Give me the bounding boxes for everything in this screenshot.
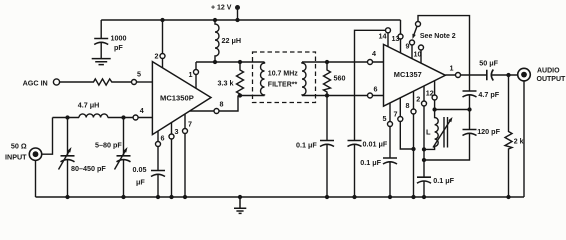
- pin 7 MC1357 branch: [398, 98, 414, 149]
- junction rail pin8: [411, 195, 415, 199]
- pin 8 MC1357 branch: [411, 91, 416, 197]
- junction rail pin7 MC1350P: [183, 195, 187, 199]
- capacitor 0.05uF: [151, 171, 165, 198]
- pin 5 MC1350P: [132, 80, 153, 85]
- svg-text:10.7 MHz: 10.7 MHz: [268, 71, 298, 78]
- junction 3.3k bottom: [238, 93, 242, 97]
- svg-text:4: 4: [140, 106, 144, 115]
- pin 14 MC1357: [386, 28, 391, 33]
- pin 4 MC1357: [368, 60, 373, 65]
- svg-text:10: 10: [414, 50, 422, 59]
- pin 4 MC1350P: [133, 115, 138, 120]
- junction rail 0.1uF 560: [325, 195, 329, 199]
- svg-text:22 μH: 22 μH: [222, 36, 242, 45]
- capacitor 0.1uF (560 branch): [320, 96, 334, 198]
- junction top rail / pin2: [160, 18, 164, 22]
- junction rail 5-80pF: [121, 195, 125, 199]
- svg-text:0.05: 0.05: [133, 165, 147, 174]
- svg-text:4.7 μH: 4.7 μH: [78, 101, 100, 110]
- capacitor 50uF: [487, 70, 518, 81]
- inductor filter input coil: [261, 62, 265, 96]
- svg-text:5–80 pF: 5–80 pF: [95, 141, 122, 150]
- svg-text:5: 5: [137, 70, 141, 79]
- svg-text:AGC IN: AGC IN: [23, 79, 48, 88]
- svg-text:8: 8: [220, 100, 224, 109]
- capacitor 5-80pF variable: [115, 118, 131, 198]
- resistor 2k: [505, 75, 512, 197]
- svg-text:7: 7: [394, 110, 398, 119]
- junction 22uH bottom: [213, 60, 217, 64]
- svg-text:2: 2: [155, 52, 159, 61]
- svg-text:6: 6: [161, 134, 165, 143]
- svg-text:1: 1: [450, 64, 454, 73]
- svg-text:OUTPUT: OUTPUT: [537, 76, 566, 83]
- svg-text:4: 4: [372, 49, 376, 58]
- svg-text:AUDIO: AUDIO: [537, 67, 560, 74]
- junction 120pF bottom / pin2 line: [422, 158, 426, 162]
- node See Note 2 terminal: [416, 16, 470, 75]
- wire input link: [53, 115, 153, 120]
- junction rail 0.01uF: [352, 195, 356, 199]
- junction rail pin6 MC1350P: [156, 195, 160, 199]
- svg-text:7: 7: [188, 120, 192, 129]
- svg-text:See Note 2: See Note 2: [420, 33, 456, 40]
- svg-text:+ 12 V: + 12 V: [211, 5, 232, 12]
- inductor L quadrature coil: [424, 110, 438, 150]
- junction rail 80-450pF: [65, 195, 69, 199]
- svg-text:8: 8: [406, 101, 410, 110]
- junction top rail / +12V: [235, 18, 239, 22]
- svg-text:0.1 μF: 0.1 μF: [360, 158, 381, 167]
- svg-text:L: L: [426, 128, 431, 137]
- pin 5 MC1357 branch: [388, 103, 393, 158]
- pin 7 MC1350P branch: [183, 114, 188, 197]
- pin 9 MC1357: [410, 40, 415, 59]
- wire see-note arrow to pin9: [412, 27, 417, 39]
- terminal AUDIO OUTPUT jack: [518, 68, 531, 81]
- ground (1000pF): [92, 59, 111, 65]
- inductor 22uH: [215, 20, 219, 62]
- wire +12V top rail: [101, 19, 400, 21]
- svg-text:14: 14: [379, 32, 387, 41]
- arrow quadrature tuning: [433, 117, 453, 148]
- terminal AGC IN: [53, 79, 59, 85]
- wire rail to pin13 MC1357: [398, 20, 403, 53]
- svg-text:1: 1: [189, 70, 193, 79]
- pin 3 MC1350P branch: [169, 123, 174, 198]
- pin 13 MC1357: [398, 34, 403, 39]
- pin 2 MC1357 branch: [422, 86, 427, 178]
- wire quad tank top: [435, 109, 470, 111]
- wire ground rail: [36, 196, 525, 198]
- label AUDIO OUTPUT: [537, 67, 566, 83]
- svg-text:9: 9: [406, 42, 410, 51]
- svg-text:13: 13: [392, 34, 400, 43]
- resistor 560: [324, 62, 331, 96]
- resistor AGC series: [60, 79, 132, 85]
- junction tank top right: [467, 107, 471, 111]
- capacitor 4.7pF: [463, 75, 477, 110]
- junction rail pin5: [388, 195, 392, 199]
- svg-text:μF: μF: [136, 178, 145, 187]
- svg-text:pF: pF: [114, 43, 123, 52]
- svg-text:6: 6: [374, 84, 378, 93]
- svg-text:MC1357: MC1357: [394, 70, 422, 79]
- pin 2 MC1350P: [160, 54, 165, 59]
- resistor 3.3k: [237, 62, 244, 96]
- inductor 4.7uH: [79, 114, 108, 118]
- svg-text:50 Ω: 50 Ω: [11, 142, 27, 151]
- svg-text:FILTER**: FILTER**: [268, 82, 298, 89]
- junction rail ground stub: [238, 195, 242, 199]
- terminal 50 ohm INPUT jack: [29, 148, 41, 160]
- junction 560 top: [325, 60, 329, 64]
- pin 8 MC1350P: [214, 109, 219, 114]
- filter 10.7MHz dashed box: [253, 52, 316, 103]
- junction output / 2k branch: [506, 73, 510, 77]
- wire input jack to rail: [35, 160, 37, 197]
- svg-text:12: 12: [426, 89, 434, 98]
- pin 12 MC1357: [432, 81, 437, 110]
- wire filter to pin4 MC1357: [302, 60, 384, 65]
- capacitor 1000pF: [94, 20, 108, 58]
- label 10.7 MHz FILTER: [268, 71, 298, 89]
- capacitor 80-450pF variable: [59, 118, 75, 198]
- junction rail 2k: [506, 195, 510, 199]
- svg-text:MC1350P: MC1350P: [160, 94, 194, 103]
- svg-text:120 pF: 120 pF: [477, 127, 500, 136]
- wire pin14 MC1357 branch: [355, 28, 391, 141]
- pin 1 MC1350P: [194, 62, 199, 88]
- wire pin2 MC1350P to rail: [160, 20, 165, 68]
- junction rail pin3 MC1350P: [169, 195, 173, 199]
- capacitor 120pF: [424, 110, 477, 161]
- svg-text:3.3 k: 3.3 k: [218, 79, 234, 88]
- junction 560 bottom: [325, 93, 329, 97]
- wire jack ground stem: [523, 81, 525, 197]
- node +12V terminal dot: [235, 5, 240, 20]
- svg-text:560: 560: [334, 74, 346, 83]
- junction tank top left: [432, 107, 436, 111]
- pin 6 MC1357: [368, 93, 373, 98]
- svg-text:2: 2: [416, 95, 420, 104]
- pin 1 MC1357: [456, 73, 461, 78]
- wire see-note to output line: [418, 16, 470, 75]
- label 1000 pF: [111, 34, 127, 53]
- op-amp U2 MC1357: [384, 44, 446, 106]
- svg-text:5: 5: [383, 114, 387, 123]
- op-amp U1 MC1350P: [152, 62, 211, 135]
- svg-text:1000: 1000: [111, 34, 127, 43]
- junction pin7/pin8: [411, 147, 415, 151]
- svg-text:80–450 pF: 80–450 pF: [71, 164, 106, 173]
- wire filter to pin6 MC1357: [302, 93, 384, 98]
- svg-text:2 k: 2 k: [514, 139, 524, 146]
- pin 10 MC1357: [419, 45, 424, 63]
- wire input to tank: [42, 118, 53, 155]
- svg-text:4.7 pF: 4.7 pF: [478, 90, 499, 99]
- svg-text:3: 3: [175, 127, 179, 136]
- junction input link 80-450pF: [65, 115, 69, 119]
- capacitor 0.01uF: [348, 141, 362, 198]
- label 50 ohm INPUT: [5, 142, 27, 162]
- junction 3.3k top: [238, 60, 242, 64]
- svg-text:50 μF: 50 μF: [479, 59, 498, 68]
- svg-text:0.1 μF: 0.1 μF: [296, 141, 317, 150]
- inductor filter output coil: [302, 62, 306, 96]
- label 0.05uF: [133, 165, 147, 187]
- pin 6 MC1350P branch: [156, 131, 161, 170]
- junction coil bottom / pin2 line: [422, 147, 426, 151]
- capacitor 0.1uF (pin5 branch): [383, 158, 397, 197]
- wire pin1 link MC1350P output: [196, 61, 265, 63]
- wire bottom link to filter: [238, 95, 265, 97]
- capacitor 0.1uF (pin2 branch): [417, 177, 431, 197]
- svg-text:0.1 μF: 0.1 μF: [433, 176, 454, 185]
- junction top rail / 22uH: [213, 18, 217, 22]
- ground (main rail): [234, 197, 246, 213]
- svg-text:0.01 μF: 0.01 μF: [363, 140, 388, 149]
- wire pin1 MC1357 output: [445, 73, 486, 78]
- junction input link 5-80pF: [121, 115, 125, 119]
- core quadrature coil slugs: [444, 117, 448, 148]
- svg-text:INPUT: INPUT: [5, 153, 27, 162]
- wire pin8 MC1350P stub: [190, 96, 238, 114]
- junction rail pin2: [422, 195, 426, 199]
